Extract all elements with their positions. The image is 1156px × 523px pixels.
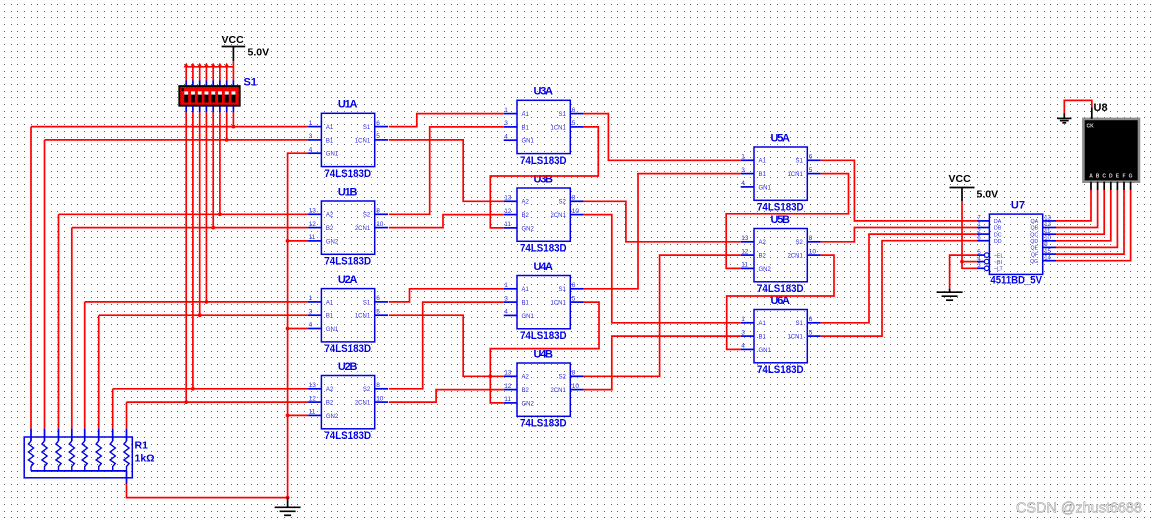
wire S1 column 8 bottom to input row <box>232 106 234 113</box>
svg-text:13: 13 <box>741 235 749 242</box>
svg-text:10: 10 <box>572 383 580 390</box>
74LS183D adder U3B <box>504 173 584 254</box>
svg-text:8: 8 <box>572 195 576 202</box>
svg-text:6: 6 <box>809 316 813 323</box>
wire U2B.10-U4B.12 <box>389 390 504 403</box>
wire c4 down <box>205 112 207 302</box>
wire seg B <box>1056 190 1098 228</box>
svg-text:A1: A1 <box>522 287 530 293</box>
wire U4B.10-U6A.3 <box>584 336 741 390</box>
svg-text:74LS183D: 74LS183D <box>520 418 567 430</box>
svg-text:3: 3 <box>741 329 745 336</box>
svg-text:S2: S2 <box>363 213 371 219</box>
svg-text:4: 4 <box>504 309 508 316</box>
svg-text:10: 10 <box>376 395 384 402</box>
svg-text:11: 11 <box>504 396 511 403</box>
svg-text:1CN1: 1CN1 <box>355 138 371 144</box>
svg-text:12: 12 <box>1044 222 1051 228</box>
wire row7 <box>113 388 308 390</box>
svg-text:1: 1 <box>309 295 313 302</box>
svg-text:A1: A1 <box>326 300 334 306</box>
svg-text:S2: S2 <box>363 387 371 393</box>
wire seg F <box>1056 190 1124 254</box>
junction (233.4,126.6) <box>232 125 236 129</box>
svg-text:74LS183D: 74LS183D <box>324 168 371 180</box>
svg-text:74LS183D: 74LS183D <box>757 283 804 295</box>
svg-text:R1: R1 <box>135 440 149 452</box>
resistor pack R1 1k ohm (8 pulldowns) <box>24 429 154 484</box>
junction (287.6,497.6) <box>286 496 290 500</box>
svg-text:U3B: U3B <box>534 173 554 185</box>
svg-text:1: 1 <box>504 282 508 289</box>
svg-text:1CN1: 1CN1 <box>550 125 566 131</box>
wire drop1 <box>30 127 32 429</box>
wire row3 <box>59 213 309 215</box>
svg-text:S2: S2 <box>795 240 803 246</box>
svg-text:1: 1 <box>504 107 508 114</box>
wire U5B.10-U6A.4 <box>727 255 834 349</box>
74LS183D adder U2A <box>308 274 388 355</box>
svg-text:A2: A2 <box>522 200 530 206</box>
junction (226.7,139.9) <box>225 138 229 142</box>
svg-text:11: 11 <box>1044 229 1051 235</box>
junction (206.4,301.9) <box>205 300 209 304</box>
svg-text:CK: CK <box>1087 124 1095 130</box>
svg-text:3: 3 <box>309 308 313 315</box>
wire U1B.8-U3A.3 <box>389 127 504 214</box>
svg-text:12: 12 <box>504 383 512 390</box>
wire gnd spur <box>288 240 309 242</box>
svg-text:1: 1 <box>741 154 745 161</box>
wire S1 column 1 bottom to input row <box>185 106 187 113</box>
wire drop3 <box>58 214 60 428</box>
wire drop5 <box>84 302 86 429</box>
svg-text:3: 3 <box>309 133 313 140</box>
svg-text:U4B: U4B <box>534 348 554 360</box>
svg-text:12: 12 <box>309 221 317 228</box>
74LS183D adder U2B <box>308 361 388 442</box>
wire c2 top red <box>192 67 194 81</box>
svg-text:13: 13 <box>309 382 317 389</box>
wire c7 down <box>226 112 228 139</box>
svg-text:5: 5 <box>572 120 576 127</box>
wire bus <box>186 66 233 68</box>
wire U5A.6-U7.DA <box>821 160 977 221</box>
wire U3A.6-U5A.1 <box>584 114 741 161</box>
svg-text:VCC: VCC <box>949 173 972 185</box>
svg-text:3: 3 <box>741 167 745 174</box>
junction (192.9,388.8) <box>191 387 195 391</box>
svg-text:U1A: U1A <box>338 99 358 111</box>
wire seg G <box>1056 190 1131 261</box>
junction (962,261.6) <box>960 260 964 264</box>
svg-text:12: 12 <box>741 248 749 255</box>
ground symbol (main rail) <box>287 498 289 508</box>
74LS183D adder U6A <box>741 295 821 376</box>
wire U6A.5-U7.DD <box>821 241 977 336</box>
wire c2 down <box>192 112 194 388</box>
svg-text:A2: A2 <box>522 375 530 381</box>
wire c5 top red <box>212 67 214 81</box>
svg-text:3: 3 <box>504 295 508 302</box>
74LS183D adder U1B <box>308 186 388 267</box>
svg-text:A1: A1 <box>326 125 334 131</box>
svg-text:S1: S1 <box>795 321 803 327</box>
svg-text:5: 5 <box>809 329 813 336</box>
svg-text:~BI: ~BI <box>994 260 1002 266</box>
svg-text:12: 12 <box>504 208 512 215</box>
wire c6 top red <box>219 67 221 81</box>
svg-text:11: 11 <box>741 262 748 269</box>
wire drop7 <box>112 389 114 429</box>
svg-text:GN1: GN1 <box>522 139 535 145</box>
junction arrow c7 <box>224 63 229 68</box>
svg-text:5.0V: 5.0V <box>977 189 999 201</box>
wire U3B.10-U6A.1 <box>584 215 741 323</box>
wire drop4 <box>71 228 73 429</box>
svg-text:3: 3 <box>504 120 508 127</box>
svg-text:B: B <box>1096 174 1100 180</box>
svg-text:B1: B1 <box>326 314 334 320</box>
svg-text:2CN1: 2CN1 <box>355 401 371 407</box>
svg-text:B1: B1 <box>522 125 530 131</box>
svg-text:5.0V: 5.0V <box>248 47 270 59</box>
svg-text:G: G <box>1129 174 1133 180</box>
svg-text:B1: B1 <box>326 138 334 144</box>
wire S1 column 7 bottom to input row <box>226 106 228 113</box>
svg-text:13: 13 <box>504 195 512 202</box>
junction arrow c3 <box>197 63 202 68</box>
svg-text:5: 5 <box>376 308 380 315</box>
svg-text:GN2: GN2 <box>522 226 535 232</box>
svg-text:2CN1: 2CN1 <box>787 254 803 260</box>
74LS183D adder U5A <box>741 132 821 213</box>
wire U1A.5-U3B.13 <box>389 140 504 201</box>
wire U5B.8-U7.DB <box>821 228 977 242</box>
74LS183D adder U5B <box>741 214 821 295</box>
wire U4A.6-U5A.3 <box>584 174 741 289</box>
svg-text:74LS183D: 74LS183D <box>324 256 371 268</box>
ground U8 <box>1057 118 1071 122</box>
wire c5 down <box>212 112 214 227</box>
svg-text:S1: S1 <box>558 112 566 118</box>
svg-text:C: C <box>1102 174 1106 180</box>
svg-text:DA: DA <box>994 219 1002 225</box>
svg-text:U2B: U2B <box>338 361 358 373</box>
wire c8 down <box>232 112 234 126</box>
wire seg A <box>1056 190 1091 221</box>
svg-text:4: 4 <box>741 343 745 350</box>
svg-text:~LT: ~LT <box>994 267 1004 273</box>
svg-text:11: 11 <box>309 409 316 416</box>
svg-text:B2: B2 <box>522 388 530 394</box>
svg-text:DB: DB <box>994 226 1002 232</box>
svg-text:2CN1: 2CN1 <box>355 226 371 232</box>
svg-text:QD: QD <box>1030 239 1038 245</box>
ground U7 <box>937 292 963 300</box>
svg-text:4511BD_5V: 4511BD_5V <box>990 275 1042 287</box>
svg-text:4: 4 <box>309 146 313 153</box>
svg-text:VCC: VCC <box>222 34 245 46</box>
svg-text:13: 13 <box>504 370 512 377</box>
svg-text:4: 4 <box>741 180 745 187</box>
svg-text:6: 6 <box>376 295 380 302</box>
wire c8 top red <box>232 67 234 81</box>
junction (199.7,315.2) <box>198 313 202 317</box>
wire U3B.8-U5B.13 <box>584 201 741 242</box>
svg-text:GN1: GN1 <box>522 314 535 320</box>
wire U2B.8-U4A.3 <box>389 302 504 389</box>
svg-text:B2: B2 <box>759 254 767 260</box>
junction arrow c1 <box>184 63 189 68</box>
svg-text:B1: B1 <box>522 301 530 307</box>
svg-text:15: 15 <box>1044 249 1051 255</box>
svg-text:U5A: U5A <box>771 132 791 144</box>
svg-text:8: 8 <box>809 235 813 242</box>
svg-text:74LS183D: 74LS183D <box>324 343 371 355</box>
svg-text:GN2: GN2 <box>522 401 535 407</box>
svg-text:GN1: GN1 <box>326 327 339 333</box>
svg-text:GN1: GN1 <box>759 348 772 354</box>
wire U1B.10-U3B.12 <box>389 215 504 228</box>
svg-text:GN2: GN2 <box>326 239 339 245</box>
74LS183D adder U1A <box>308 99 388 180</box>
wire drop8 <box>126 402 128 429</box>
junction (490.3,376.3) <box>488 374 492 378</box>
wire row6 <box>99 314 308 316</box>
svg-text:U2A: U2A <box>338 274 358 286</box>
svg-text:13: 13 <box>309 208 317 215</box>
wire S1 column 4 bottom to input row <box>205 106 207 113</box>
74LS183D adder U4B <box>504 348 584 429</box>
svg-text:A2: A2 <box>326 213 334 219</box>
svg-text:74LS183D: 74LS183D <box>324 430 371 442</box>
wire row8 <box>127 401 309 403</box>
svg-text:S1: S1 <box>363 125 371 131</box>
wire row5 <box>85 301 308 303</box>
svg-text:6: 6 <box>376 120 380 127</box>
svg-text:A: A <box>1089 174 1093 180</box>
power VCC 5.0V (switch supply) <box>222 34 270 61</box>
wire c1 down <box>185 112 187 402</box>
svg-text:2CN1: 2CN1 <box>550 213 566 219</box>
svg-text:13: 13 <box>1044 216 1051 222</box>
svg-text:S2: S2 <box>558 375 566 381</box>
74LS183D adder U4A <box>504 261 584 342</box>
wire U2A.5-U4B.13 <box>389 315 504 376</box>
junction arrow c2 <box>190 63 195 68</box>
junction arrow c6 <box>217 63 222 68</box>
svg-text:DD: DD <box>994 239 1002 245</box>
wire drop2 <box>44 140 46 429</box>
svg-text:1CN1: 1CN1 <box>787 335 803 341</box>
svg-text:1CN1: 1CN1 <box>787 172 803 178</box>
svg-text:5: 5 <box>572 295 576 302</box>
ground main <box>275 507 301 515</box>
wire c3 top red <box>199 67 201 81</box>
svg-text:74LS183D: 74LS183D <box>757 202 804 214</box>
74LS183D adder U3A <box>504 86 584 167</box>
power VCC 5.0V (decoder supply) <box>949 173 999 201</box>
BCD to 7-seg decoder U7 4511BD_5V <box>977 199 1056 286</box>
wire c3 down <box>199 112 201 315</box>
wire vcc to bus <box>232 61 234 67</box>
switch S1 (8-position DIP) <box>179 77 257 106</box>
svg-text:GN2: GN2 <box>759 267 772 273</box>
svg-text:GN1: GN1 <box>759 185 772 191</box>
svg-text:10: 10 <box>809 248 817 255</box>
wire seg C <box>1056 190 1104 234</box>
wire gnd spur <box>288 414 309 416</box>
wire seg D <box>1056 190 1111 241</box>
svg-text:QG: QG <box>1030 259 1038 265</box>
wire S1 column 2 bottom to input row <box>192 106 194 113</box>
svg-text:U3A: U3A <box>534 86 554 98</box>
svg-text:B2: B2 <box>326 226 334 232</box>
svg-text:GN2: GN2 <box>326 414 339 420</box>
svg-text:1CN1: 1CN1 <box>355 314 371 320</box>
svg-text:D: D <box>1109 174 1113 180</box>
svg-text:U1B: U1B <box>338 186 358 198</box>
wire row2 <box>45 139 309 141</box>
svg-text:11: 11 <box>309 234 316 241</box>
junction (219.9,214.3) <box>218 212 222 216</box>
svg-text:A1: A1 <box>759 321 767 327</box>
wire ck <box>1064 100 1092 113</box>
svg-text:6: 6 <box>572 107 576 114</box>
svg-text:F: F <box>1122 174 1125 180</box>
svg-text:1CN1: 1CN1 <box>550 301 566 307</box>
svg-text:CSDN @zhust6688: CSDN @zhust6688 <box>1016 501 1142 517</box>
junction (287.6,328.5) <box>286 327 290 331</box>
svg-text:S1: S1 <box>244 77 257 89</box>
svg-text:B2: B2 <box>522 213 530 219</box>
svg-text:10: 10 <box>572 208 580 215</box>
wire r1 common <box>127 484 288 498</box>
wire row4 <box>72 227 308 229</box>
junction arrow c5 <box>211 63 216 68</box>
junction (186.2,402.1) <box>184 400 188 404</box>
svg-text:14: 14 <box>1044 255 1051 261</box>
wire S1 column 6 bottom to input row <box>219 106 221 113</box>
wire c4 top red <box>205 67 207 81</box>
svg-text:1kΩ: 1kΩ <box>135 453 155 465</box>
svg-text:1: 1 <box>741 316 745 323</box>
wire el-gnd <box>950 255 977 289</box>
svg-text:QF: QF <box>1031 252 1039 258</box>
svg-text:74LS183D: 74LS183D <box>520 243 567 255</box>
svg-text:B1: B1 <box>759 335 767 341</box>
svg-text:S2: S2 <box>558 200 566 206</box>
svg-text:4: 4 <box>309 322 313 329</box>
junction (213.2,227.6) <box>211 226 215 230</box>
wire U3A.5-U3B.11 <box>490 127 598 228</box>
wire U1A.6-U3A.1 <box>389 114 504 127</box>
wire gnd rail <box>288 153 309 497</box>
wire drop6 <box>98 315 100 428</box>
svg-text:B1: B1 <box>759 172 767 178</box>
svg-text:U7: U7 <box>1011 199 1025 211</box>
svg-text:8: 8 <box>572 370 576 377</box>
svg-text:GN1: GN1 <box>326 152 339 158</box>
svg-text:5: 5 <box>376 133 380 140</box>
svg-text:6: 6 <box>572 282 576 289</box>
svg-text:10: 10 <box>376 221 384 228</box>
svg-text:1: 1 <box>309 120 313 127</box>
svg-text:QB: QB <box>1031 226 1039 232</box>
svg-text:74LS183D: 74LS183D <box>520 155 567 167</box>
svg-text:10: 10 <box>1044 236 1051 242</box>
svg-text:8: 8 <box>376 382 380 389</box>
wire U5A.5-U5B.11 <box>726 174 848 269</box>
wire U4A.5-U4B.11 <box>490 302 599 403</box>
svg-text:~EL: ~EL <box>994 253 1004 259</box>
wire U2A.6-U4A.1 <box>389 289 504 302</box>
svg-text:DC: DC <box>994 232 1002 238</box>
wire row1 <box>31 126 308 128</box>
wire S1 column 3 bottom to input row <box>199 106 201 113</box>
svg-text:U4A: U4A <box>534 261 554 273</box>
svg-text:QC: QC <box>1030 232 1038 238</box>
svg-text:11: 11 <box>504 221 511 228</box>
svg-text:74LS183D: 74LS183D <box>757 364 804 376</box>
wire vcc-BI <box>962 261 977 263</box>
svg-text:6: 6 <box>809 154 813 161</box>
svg-text:A2: A2 <box>759 240 767 246</box>
wire vcc-LT <box>962 201 977 268</box>
wire seg E <box>1056 190 1117 247</box>
wire c7 top red <box>226 67 228 81</box>
wire U6A.6-U7.DC <box>821 234 977 323</box>
svg-text:12: 12 <box>309 395 317 402</box>
svg-text:U5B: U5B <box>771 214 791 226</box>
svg-text:U8: U8 <box>1094 102 1108 114</box>
junction (287.6,240.9) <box>286 239 290 243</box>
wire c6 down <box>219 112 221 214</box>
svg-text:4: 4 <box>504 133 508 140</box>
svg-text:QE: QE <box>1031 246 1039 252</box>
wire S1 column 5 bottom to input row <box>212 106 214 113</box>
svg-text:A1: A1 <box>759 159 767 165</box>
svg-text:A2: A2 <box>326 387 334 393</box>
svg-text:A1: A1 <box>522 112 530 118</box>
svg-text:74LS183D: 74LS183D <box>520 330 567 342</box>
svg-text:2CN1: 2CN1 <box>550 388 566 394</box>
wire c1 top red <box>185 67 187 81</box>
svg-text:B2: B2 <box>326 401 334 407</box>
svg-text:QA: QA <box>1031 219 1039 225</box>
wire U4B.8-U5B.12 <box>584 255 741 376</box>
junction arrow c4 <box>204 63 209 68</box>
wire gnd spur <box>288 328 309 330</box>
svg-text:S1: S1 <box>363 300 371 306</box>
7-segment display U8 <box>1083 102 1139 190</box>
svg-text:5: 5 <box>809 167 813 174</box>
svg-text:S1: S1 <box>795 159 803 165</box>
junction (287.6,415.4) <box>286 414 290 418</box>
svg-text:8: 8 <box>376 208 380 215</box>
svg-text:S1: S1 <box>558 287 566 293</box>
